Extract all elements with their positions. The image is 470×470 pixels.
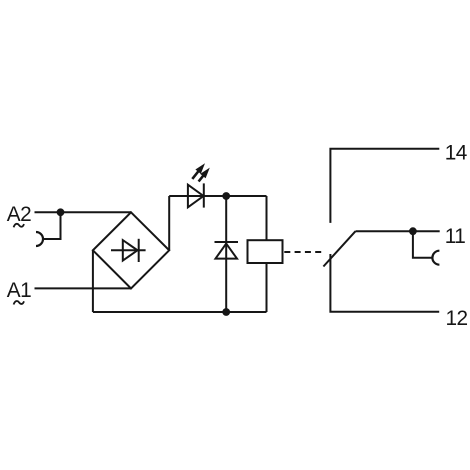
node bottom bus junction <box>222 308 230 316</box>
wire bridge right corner up to LED line <box>168 196 170 250</box>
LED cathode bar <box>203 183 205 207</box>
AC marker for A1 <box>14 301 24 305</box>
LED emission arrow 2 <box>199 168 210 182</box>
wire armature to terminal 11 <box>356 230 440 232</box>
wire fixed contact 14 <box>330 149 439 223</box>
wire fixed contact 12 <box>330 254 439 312</box>
bottom bus wire <box>93 311 267 313</box>
wire 11 jumper stub <box>413 231 433 258</box>
svg-text:12: 12 <box>446 307 468 330</box>
wire A1 to bridge bottom <box>35 287 132 289</box>
wire LED line down to coil <box>266 196 268 240</box>
svg-text:14: 14 <box>445 142 467 165</box>
wire coil bottom to bus <box>266 263 268 312</box>
wire A2 jumper stub <box>43 212 61 239</box>
mechanical link (dashed) <box>284 251 321 253</box>
node 11 junction <box>409 227 417 235</box>
LED emission arrow 1 <box>192 163 205 179</box>
wire A2 to bridge top <box>35 211 132 213</box>
node LED junction <box>222 192 230 200</box>
wire bridge left corner to bottom bus <box>92 250 94 312</box>
AC marker for A2 <box>14 224 24 228</box>
node A2 junction <box>57 208 65 216</box>
plug-in contact at A2 <box>36 232 43 246</box>
plug-in contact at 11 <box>432 251 439 265</box>
suppressor diode triangle <box>216 244 238 259</box>
bridge internal diode wire <box>111 249 146 251</box>
svg-text:A2: A2 <box>7 203 31 226</box>
wire LED line <box>169 195 266 197</box>
svg-text:A1: A1 <box>7 279 31 302</box>
svg-text:11: 11 <box>445 225 465 248</box>
bridge internal diode <box>123 240 138 261</box>
relay coil K1 <box>248 240 283 263</box>
bridge internal diode cathode bar <box>138 239 140 262</box>
bridge rectifier <box>93 212 169 288</box>
suppressor diode wire <box>225 196 227 312</box>
relay armature contact <box>323 231 355 266</box>
LED D1 <box>188 185 204 208</box>
suppressor diode cathode bar <box>215 241 239 243</box>
